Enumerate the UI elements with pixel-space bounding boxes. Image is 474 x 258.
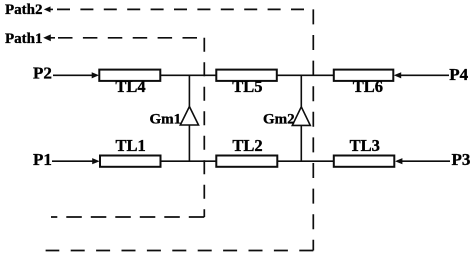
svg-text:Path1: Path1	[5, 31, 43, 47]
svg-text:TL2: TL2	[232, 136, 262, 155]
svg-text:TL1: TL1	[116, 136, 146, 155]
svg-text:P3: P3	[452, 150, 471, 169]
svg-text:TL3: TL3	[350, 136, 380, 155]
svg-text:TL4: TL4	[115, 77, 145, 96]
svg-text:Gm1: Gm1	[150, 112, 182, 128]
svg-text:TL6: TL6	[353, 77, 383, 96]
svg-text:P1: P1	[33, 150, 52, 169]
svg-text:TL5: TL5	[232, 77, 262, 96]
svg-text:Gm2: Gm2	[263, 111, 295, 127]
svg-text:P4: P4	[449, 65, 468, 84]
svg-text:Path2: Path2	[5, 2, 43, 18]
svg-text:P2: P2	[33, 64, 52, 83]
